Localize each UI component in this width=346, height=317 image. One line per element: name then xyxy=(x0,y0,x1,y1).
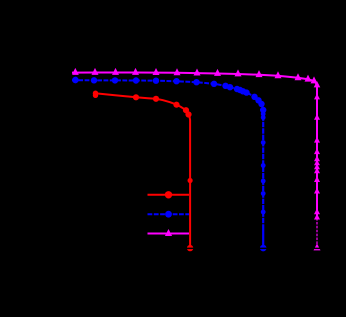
red curve line xyxy=(93,93,190,247)
magenta curve markers (triangles) xyxy=(72,68,320,251)
magenta curve vertical lower segment (textured) xyxy=(316,218,318,246)
x-axis spine (black, cuts bottom markers) xyxy=(0,248,346,250)
legend entry 1: red line + circle xyxy=(148,191,190,198)
legend entry 3: magenta line + triangle xyxy=(148,229,190,236)
blue curve markers xyxy=(72,77,266,252)
blue curve line (dashed) xyxy=(72,80,263,111)
legend entry 2: blue dashed line + circle xyxy=(148,211,190,218)
blue curve vertical segment xyxy=(262,109,264,247)
magenta curve line xyxy=(72,73,317,219)
red curve markers xyxy=(93,91,194,252)
